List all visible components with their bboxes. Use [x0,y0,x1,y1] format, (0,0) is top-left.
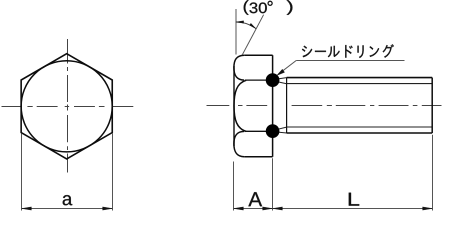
shank major diameter bottom line [287,132,433,134]
label underline [296,60,404,62]
arrowhead A left [234,207,244,210]
lower facet edge line [245,130,273,132]
bottom facet rounded cap [234,131,244,156]
middle facet chamfer arc [234,80,246,131]
label opening paren [244,0,249,15]
top facet rounded cap [234,55,244,80]
30 deg chamfer slant line [242,15,263,55]
seal ring section lower [266,124,280,138]
dimension line A and L [234,208,433,210]
dimension line a [22,208,113,210]
upper facet edge line [245,79,273,81]
hexagon outline (across flats a) [21,54,112,159]
head left (top) face line [233,66,235,146]
seal ring label [302,44,394,58]
extension line below head left face (A) [233,162,235,211]
thread root top line [287,83,432,85]
leader arrowhead [277,69,285,75]
label 30deg [250,3,267,14]
extension line left for dimension a [21,134,23,211]
label a [63,195,72,205]
horizontal centerline of hex head [2,106,134,108]
30 deg reference extension line [235,9,237,55]
leader line to seal ring [278,61,296,75]
seal ring section upper [266,73,280,87]
label A [248,192,262,206]
extension line right for dimension a [112,134,114,211]
label closing paren [287,0,293,15]
arrowhead L left [273,207,283,210]
angle arc arrowhead left [236,21,244,23]
thread runout lower [273,127,287,133]
angle arc arrowhead right [250,23,257,28]
label degree ring [268,1,273,6]
arrowhead left of dimension a [22,207,32,210]
head bottom line [244,156,272,158]
label L [349,193,359,206]
extension line below bolt end (L) [432,135,434,211]
extension line below bearing face (A/L) [272,158,274,210]
arrowhead A right [263,207,273,210]
full-thread start line [286,78,288,133]
chamfer circle inscribed in hexagon [21,61,112,152]
arrowhead right of dimension a [103,207,113,210]
bolt end face [431,78,433,133]
head top line (side view) [244,54,272,56]
bolt axis centerline [207,105,442,107]
thread runout upper [273,78,287,84]
angle dimension arc [236,22,256,29]
vertical centerline of hex head [67,39,69,173]
arrowhead L right [423,207,433,210]
head bearing face (right face) [272,55,274,157]
shank major diameter top line [287,77,433,79]
thread root bottom line [287,126,432,128]
